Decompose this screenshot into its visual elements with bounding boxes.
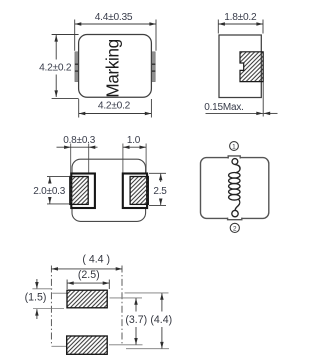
pad top (land pattern, hatched) — [67, 290, 107, 308]
svg-text:2.5: 2.5 — [153, 186, 167, 197]
right land (thick outline) — [123, 174, 147, 209]
svg-text:2: 2 — [233, 225, 237, 232]
bottom terminal notch — [228, 216, 242, 220]
connector/extension lines (gray) — [32, 289, 169, 349]
svg-text:2.0±0.3: 2.0±0.3 — [33, 186, 66, 197]
right terminal pad (hatched) — [130, 177, 148, 205]
component body (top view) — [79, 35, 152, 98]
inductor coil winding — [229, 164, 240, 210]
dimension (4.4) top — [51, 268, 122, 270]
pin 2 balloon — [230, 223, 239, 232]
dimension (3.7) — [135, 298, 137, 311]
pin 1 balloon — [230, 142, 239, 151]
svg-text:4.4±0.35: 4.4±0.35 — [95, 12, 133, 23]
svg-text:4.2±0.2: 4.2±0.2 — [39, 63, 72, 74]
centerline left (dash-dot) — [50, 266, 52, 345]
dimension 4.2±0.2 (left) — [52, 35, 79, 99]
svg-text:( 4.4 ): ( 4.4 ) — [82, 254, 110, 266]
terminal cross-section (hatched, with notch) — [240, 52, 263, 82]
terminal circle top — [232, 159, 238, 165]
pad bottom (land pattern, hatched) — [67, 336, 108, 354]
svg-text:0.8±0.3: 0.8±0.3 — [63, 135, 96, 146]
extension lines for 0.8 and 1.0 dims — [71, 144, 146, 176]
body (side view) — [219, 35, 261, 98]
terminal tab right (top view) — [151, 52, 155, 82]
svg-text:(4.4): (4.4) — [150, 314, 172, 326]
dimension 1.8±0.2 — [218, 20, 263, 34]
terminal tab left (top view) — [75, 52, 79, 82]
svg-text:(1.5): (1.5) — [25, 292, 47, 304]
left terminal pad (hatched) — [70, 177, 88, 205]
dimension (1.5) — [36, 279, 38, 288]
top terminal notch — [228, 155, 240, 159]
svg-text:(3.7): (3.7) — [125, 314, 147, 326]
svg-text:1.8±0.2: 1.8±0.2 — [224, 12, 257, 23]
svg-text:4.2±0.2: 4.2±0.2 — [98, 101, 131, 112]
dimension 2.5 — [149, 173, 166, 205]
dimension 1.0 — [123, 146, 146, 148]
svg-text:Marking: Marking — [103, 39, 122, 97]
dimension 0.8±0.3 — [57, 146, 98, 148]
body outline (schematic) — [201, 158, 269, 219]
centerline right (dash-dot) — [121, 266, 123, 344]
body (bottom view) — [72, 159, 146, 221]
svg-text:0.15Max.: 0.15Max. — [204, 102, 244, 113]
terminal circle bottom — [232, 210, 238, 216]
dimension 4.2±0.2 (bottom) — [79, 99, 152, 118]
svg-text:1.0: 1.0 — [127, 135, 141, 146]
dimension 2.0±0.3 — [47, 177, 69, 204]
dimension 0.15Max. (terminal protrusion) — [262, 82, 264, 117]
svg-text:(2.5): (2.5) — [78, 269, 100, 281]
dimension 4.4±0.35 (top) — [75, 20, 156, 51]
dimension (2.5) — [67, 280, 109, 290]
svg-text:1: 1 — [232, 143, 236, 150]
dimension (4.4) right — [161, 293, 163, 311]
left land (thick outline) — [71, 174, 95, 209]
